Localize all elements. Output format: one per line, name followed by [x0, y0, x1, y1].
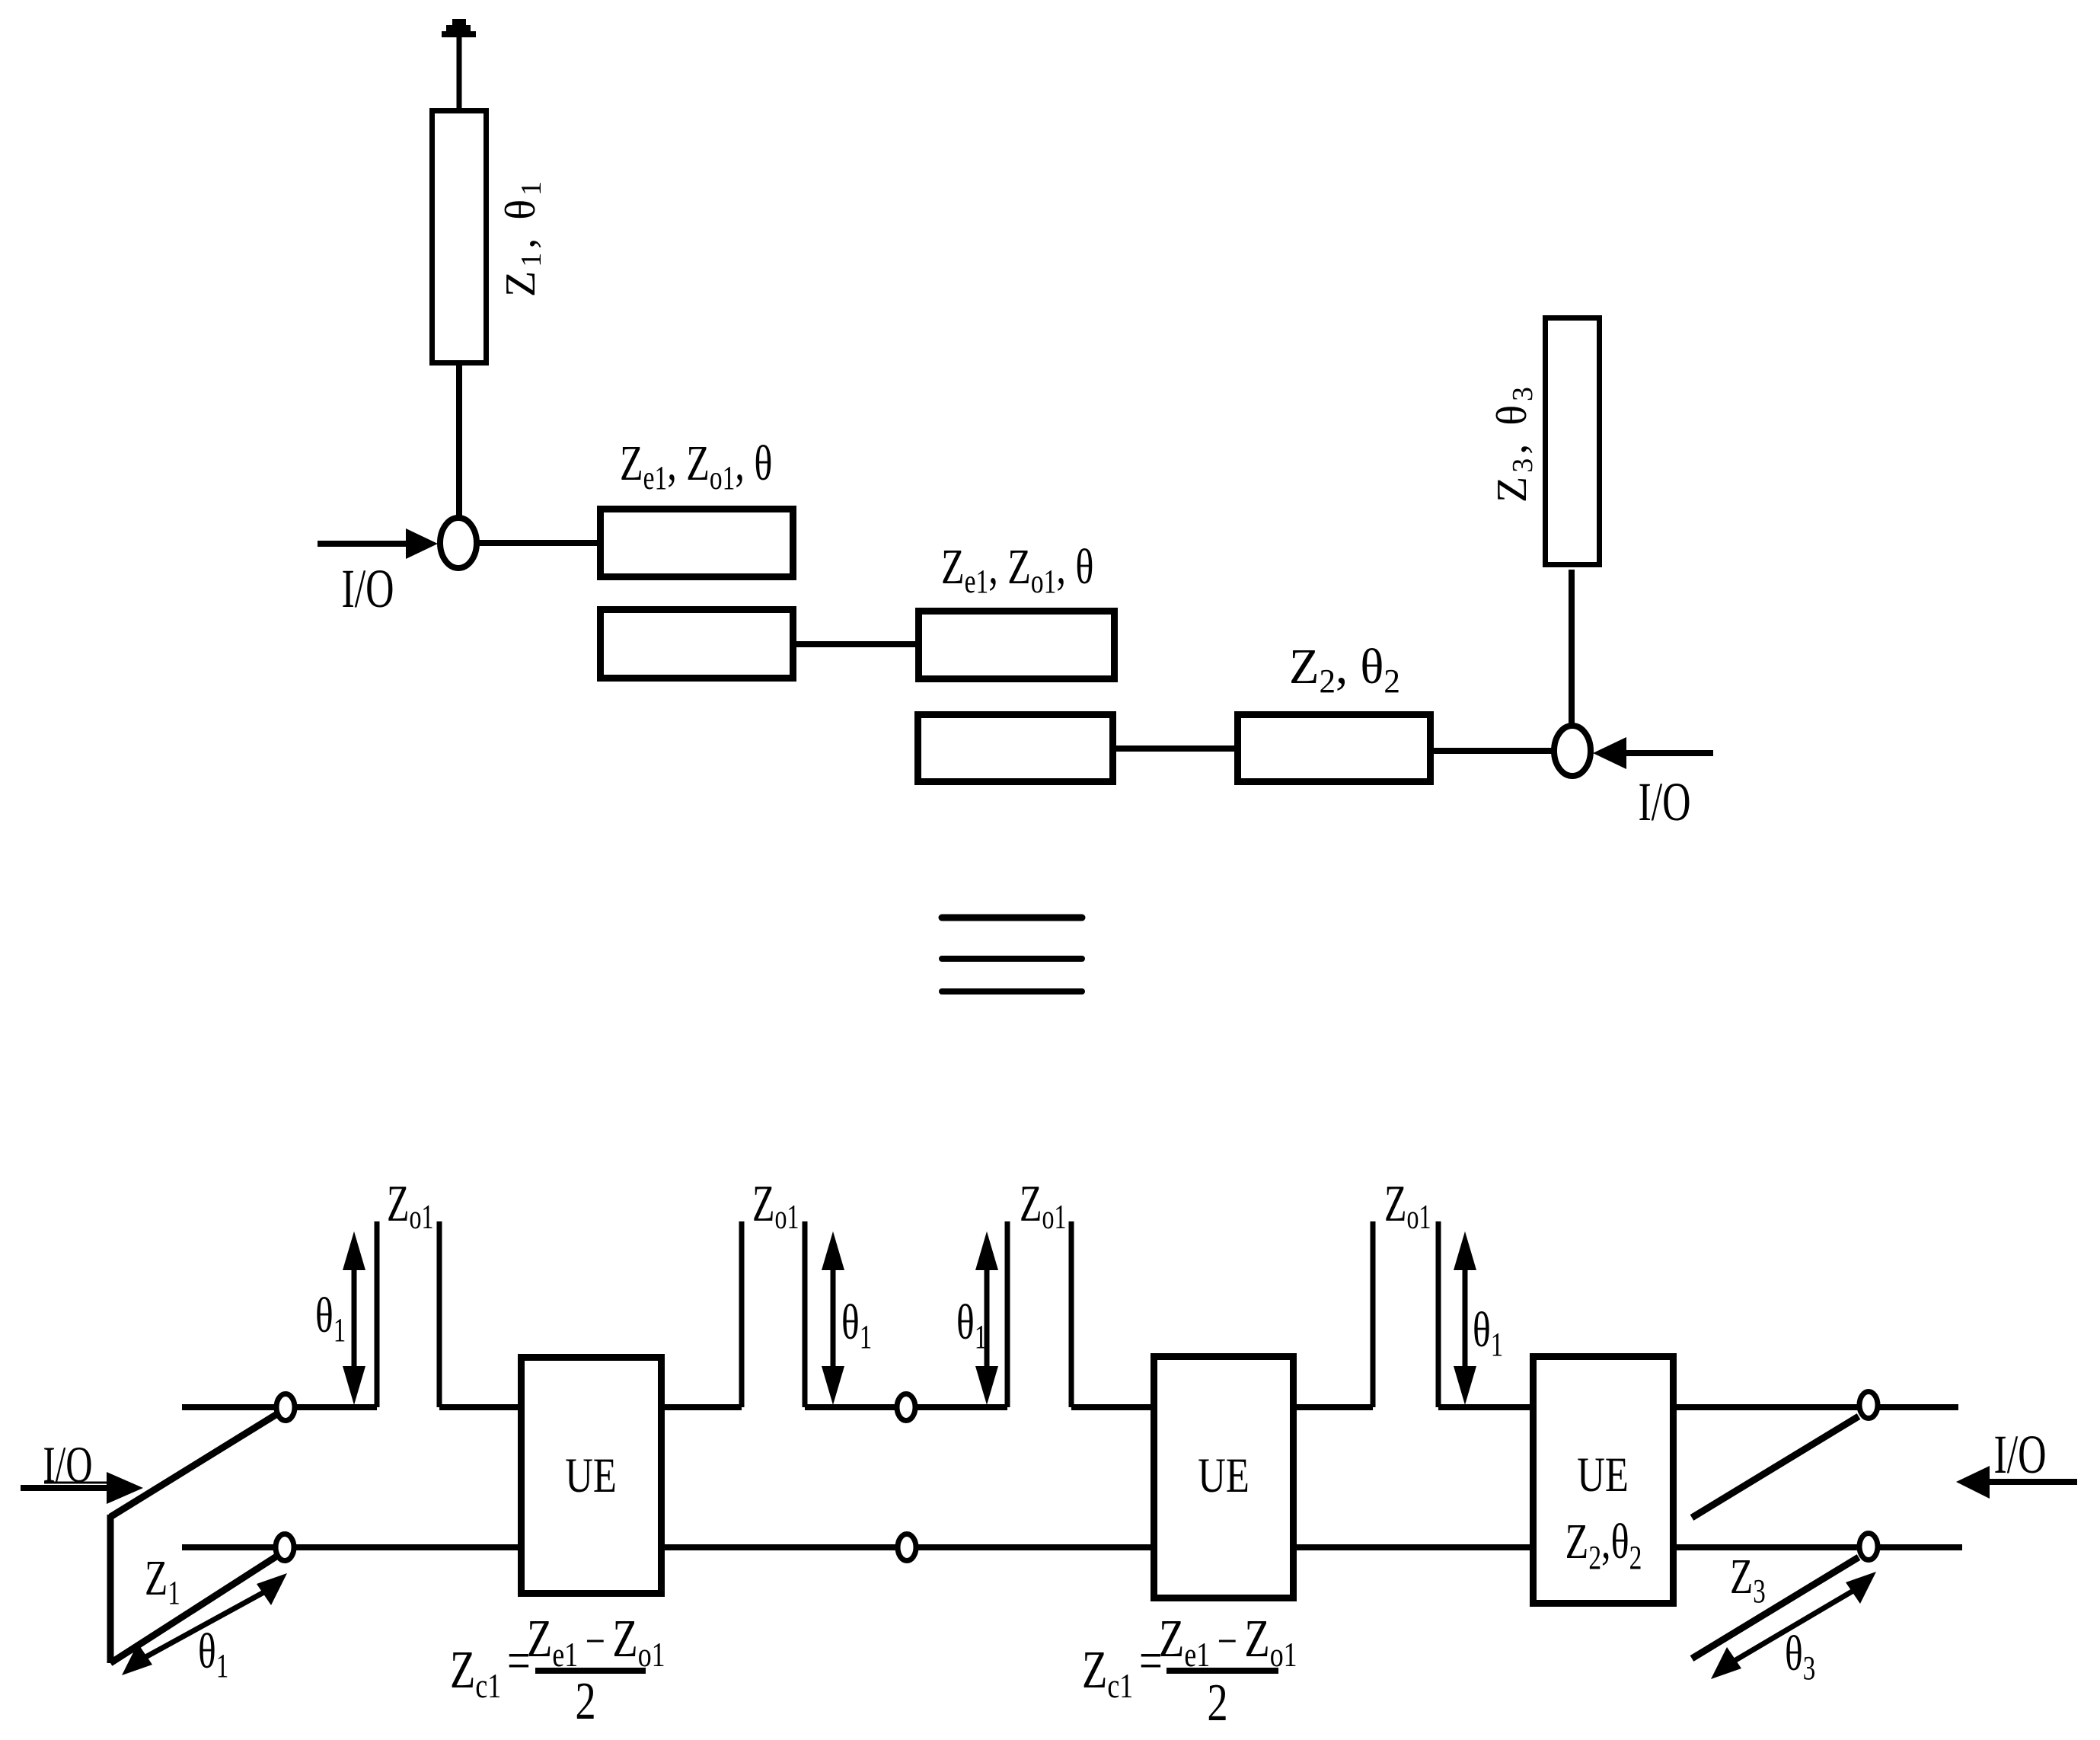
node F (bottom rail middle) — [898, 1534, 916, 1561]
I/O arrow (top left) — [318, 541, 407, 547]
bottom rail segment 3 — [1294, 1544, 1533, 1550]
value label Z3, theta3 — [1489, 383, 1539, 503]
bottom rail segment 4 — [1674, 1544, 1962, 1550]
label Ze1, Zo1, theta (pair 1) — [620, 435, 772, 496]
label theta3 (bottom right) — [1785, 1625, 1815, 1687]
top rail segment 7 — [1438, 1404, 1533, 1410]
label Z3 (bottom right) — [1730, 1548, 1766, 1610]
node B — [1554, 726, 1591, 776]
formula Zc1 = (Ze1 - Zo1)/2 (right) — [1082, 1609, 1297, 1732]
label I/O (bottom left) — [43, 1435, 92, 1493]
dimension arrow theta1 (stub S3) — [975, 1231, 998, 1405]
svg-text:UE: UE — [565, 1448, 617, 1502]
equivalence symbol — [942, 918, 1082, 991]
I/O arrow (bottom left) — [21, 1485, 107, 1491]
svg-text:I/O: I/O — [43, 1435, 92, 1493]
stub S1 left conductor — [375, 1221, 380, 1407]
coupled line 2 top conductor — [919, 611, 1115, 679]
top rail segment 1 — [182, 1404, 377, 1410]
wire node H diagonal (line Z3 lower conductor) — [1692, 1557, 1859, 1659]
ground — [442, 19, 476, 37]
dimension arrow theta1 (bottom left) — [122, 1643, 152, 1675]
label theta1 (stub S4) — [1473, 1301, 1503, 1363]
label Z2, theta2 — [1289, 639, 1400, 700]
svg-text:I/O: I/O — [1638, 771, 1690, 832]
wire port to node C (line Z1 upper conductor) — [110, 1413, 279, 1517]
label I/O (top left) — [341, 558, 394, 619]
top rail segment 2 — [439, 1404, 521, 1410]
UE box 3 — [1534, 1357, 1674, 1604]
stub S2 left conductor — [739, 1221, 745, 1407]
stub S4 right conductor — [1436, 1221, 1441, 1407]
bottom rail segment 2 — [662, 1544, 1154, 1550]
svg-text:2: 2 — [575, 1671, 595, 1731]
I/O arrow (bottom right) — [1956, 1466, 1990, 1499]
dimension arrow theta1 (stub S4) — [1454, 1231, 1476, 1405]
transmission line Z2 — [1238, 715, 1431, 782]
node E (top rail middle) — [897, 1394, 915, 1421]
label theta1 (stub S1) — [315, 1287, 346, 1349]
svg-text:UE: UE — [1577, 1447, 1629, 1502]
top rail segment 8 — [1674, 1404, 1958, 1410]
UE box 2 — [1154, 1357, 1294, 1598]
label UE (box 1) — [565, 1448, 617, 1502]
wire coupled line 1 to coupled line 2 — [793, 641, 918, 647]
coupled line 1 bottom conductor — [601, 610, 793, 678]
port line left — [107, 1515, 114, 1663]
wire node B to stub Z3 — [1569, 570, 1575, 726]
formula Zc1 = (Ze1 - Zo1)/2 (left) — [450, 1609, 665, 1731]
label Ze1, Zo1, theta (pair 2) — [941, 538, 1093, 600]
label theta1 (stub S3) — [956, 1294, 987, 1355]
bottom rail segment 1 — [182, 1544, 521, 1550]
dimension arrow theta1 (stub S2) — [822, 1231, 844, 1405]
node C (top rail left) — [276, 1394, 295, 1421]
label Z2,theta2 (box 3) — [1565, 1513, 1642, 1576]
dimension arrow theta1 (stub S1) — [343, 1231, 365, 1405]
coupled line 2 bottom conductor — [918, 715, 1113, 782]
svg-text:Ze1, Zo1, θ: Ze1, Zo1, θ — [941, 538, 1093, 600]
svg-text:Ze1, Zo1, θ: Ze1, Zo1, θ — [620, 435, 772, 496]
svg-text:2: 2 — [1207, 1673, 1227, 1732]
wire coupled line 2 to line Z2 — [1113, 745, 1237, 752]
wire port to node D (line Z1 lower conductor) — [110, 1555, 279, 1663]
label theta1 (bottom left) — [198, 1623, 228, 1684]
top rail segment 3 — [662, 1404, 742, 1410]
label theta1 (stub S2) — [841, 1294, 872, 1355]
label Zo1 (stub S1) — [387, 1174, 433, 1236]
label UE (box 2) — [1198, 1448, 1249, 1502]
value label Z1, theta1 — [497, 177, 547, 297]
top rail segment 4 — [805, 1404, 1007, 1410]
dimension arrow theta3 (bottom right) — [1711, 1647, 1741, 1679]
top rail segment 6 — [1294, 1404, 1373, 1410]
stub S1 right conductor — [437, 1221, 442, 1407]
label Zo1 (stub S4) — [1384, 1174, 1431, 1236]
svg-text:UE: UE — [1198, 1448, 1249, 1502]
wire stub Z1 to node A — [456, 363, 462, 518]
label UE (box 3) — [1577, 1447, 1629, 1502]
top rail segment 5 — [1071, 1404, 1154, 1410]
wire ground to stub Z1 — [457, 37, 462, 111]
UE box 1 — [522, 1358, 662, 1594]
stub Z3 transmission line — [1546, 318, 1600, 565]
svg-text:Z2, θ2: Z2, θ2 — [1289, 639, 1400, 700]
node H (bottom rail right) — [1859, 1534, 1878, 1560]
label I/O (bottom right) — [1993, 1424, 2046, 1485]
label I/O (top right) — [1638, 771, 1690, 832]
stub Z1 transmission line — [432, 111, 487, 363]
coupled line 1 top conductor — [601, 509, 793, 577]
wire line Z2 to node B — [1431, 748, 1555, 754]
wire node G diagonal (line Z3 upper conductor) — [1692, 1416, 1859, 1518]
svg-text:I/O: I/O — [341, 558, 394, 619]
underline of I/O — [44, 1482, 107, 1484]
node A — [440, 518, 477, 568]
stub S3 left conductor — [1005, 1221, 1010, 1407]
label Zo1 (stub S2) — [752, 1174, 799, 1236]
I/O arrow (top right) — [1593, 737, 1626, 769]
stub S3 right conductor — [1069, 1221, 1074, 1407]
label Zo1 (stub S3) — [1020, 1174, 1066, 1236]
svg-text:I/O: I/O — [1993, 1424, 2046, 1485]
label Z1 (bottom left) — [145, 1550, 180, 1611]
node G (top rail right) — [1859, 1392, 1878, 1419]
wire node A to coupled line 1 — [479, 540, 600, 546]
stub S2 right conductor — [803, 1221, 808, 1407]
stub S4 left conductor — [1371, 1221, 1376, 1407]
node D (bottom rail left) — [276, 1534, 294, 1561]
